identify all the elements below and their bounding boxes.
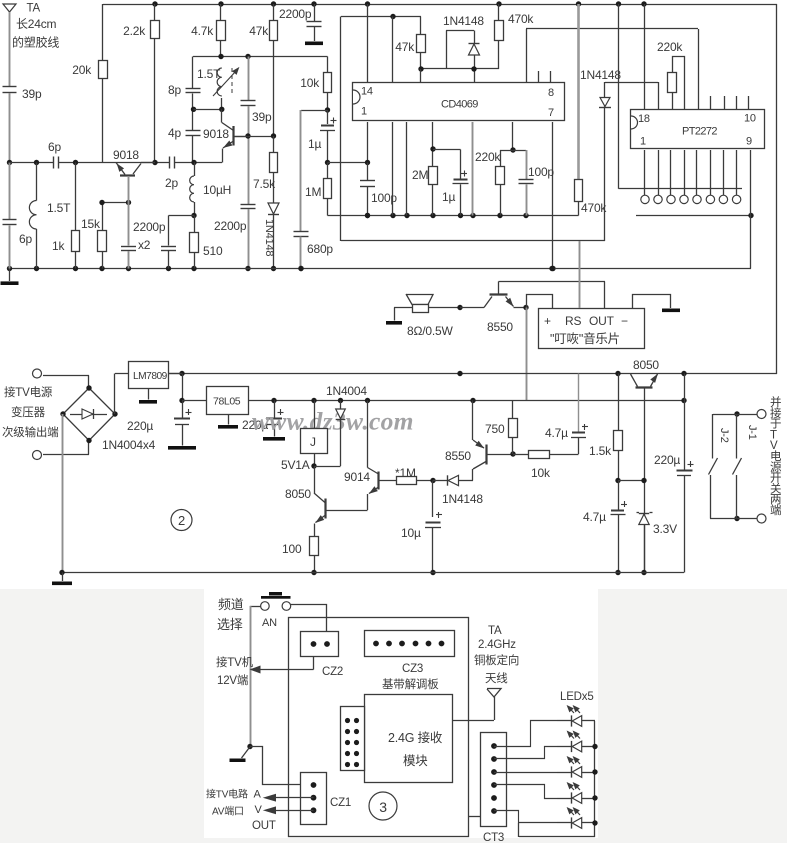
svg-text:接TV电路: 接TV电路 xyxy=(206,788,248,801)
svg-text:天线: 天线 xyxy=(485,671,508,685)
svg-text:9014: 9014 xyxy=(344,470,370,484)
svg-text:680p: 680p xyxy=(307,242,333,256)
svg-text:端: 端 xyxy=(770,504,781,517)
svg-text:1N4004x4: 1N4004x4 xyxy=(102,438,156,452)
svg-text:78L05: 78L05 xyxy=(213,396,241,408)
svg-text:1.5k: 1.5k xyxy=(589,444,612,458)
svg-text:10µ: 10µ xyxy=(401,526,421,540)
svg-text:10k: 10k xyxy=(300,76,320,90)
svg-text:6p: 6p xyxy=(48,140,61,154)
svg-text:220k: 220k xyxy=(475,150,501,164)
svg-text:12V端: 12V端 xyxy=(217,674,248,687)
svg-text:2p: 2p xyxy=(165,176,178,190)
svg-text:1µ: 1µ xyxy=(442,190,455,204)
svg-text:7.5k: 7.5k xyxy=(253,177,276,191)
svg-text:选择: 选择 xyxy=(217,617,243,632)
svg-text:100p: 100p xyxy=(528,165,554,179)
svg-text:2200p: 2200p xyxy=(133,220,166,234)
svg-text:的塑胶线: 的塑胶线 xyxy=(12,35,59,50)
svg-text:100: 100 xyxy=(282,542,302,556)
svg-text:1N4148: 1N4148 xyxy=(442,492,483,506)
svg-text:9018: 9018 xyxy=(203,127,229,141)
svg-text:47k: 47k xyxy=(395,40,415,54)
svg-text:5V1A: 5V1A xyxy=(281,458,310,472)
svg-text:1N4148: 1N4148 xyxy=(443,14,484,28)
svg-text:www.dz3w.com: www.dz3w.com xyxy=(252,407,414,436)
svg-text:A: A xyxy=(254,789,262,801)
svg-text:9018: 9018 xyxy=(113,148,139,162)
svg-text:TA: TA xyxy=(488,625,502,637)
svg-text:6p: 6p xyxy=(19,232,32,246)
svg-text:AV端口: AV端口 xyxy=(212,805,244,818)
svg-text:1N4148: 1N4148 xyxy=(580,68,621,82)
svg-text:2.4GHz: 2.4GHz xyxy=(478,639,516,651)
svg-text:4.7µ: 4.7µ xyxy=(545,426,568,440)
svg-text:220µ: 220µ xyxy=(654,453,680,467)
svg-text:OUT: OUT xyxy=(252,820,276,832)
svg-text:基带解调板: 基带解调板 xyxy=(382,677,439,691)
svg-text:47k: 47k xyxy=(249,24,269,38)
svg-text:8p: 8p xyxy=(168,83,181,97)
svg-text:CZ3: CZ3 xyxy=(402,663,423,675)
svg-text:PT2272: PT2272 xyxy=(682,126,717,138)
svg-text:2.4G 接收: 2.4G 接收 xyxy=(388,730,443,745)
svg-text:220k: 220k xyxy=(657,40,683,54)
svg-text:8550: 8550 xyxy=(445,449,471,463)
svg-text:2.2k: 2.2k xyxy=(123,24,146,38)
svg-text:2200p: 2200p xyxy=(214,219,247,233)
svg-text:+: + xyxy=(544,314,551,328)
svg-text:14: 14 xyxy=(361,86,373,98)
svg-text:3: 3 xyxy=(379,799,387,815)
svg-text:OUT: OUT xyxy=(589,314,615,328)
svg-text:CZ1: CZ1 xyxy=(330,797,351,809)
svg-text:接TV电源: 接TV电源 xyxy=(4,385,53,399)
svg-text:4.7k: 4.7k xyxy=(191,24,214,38)
svg-text:变压器: 变压器 xyxy=(11,405,46,419)
svg-text:2200p: 2200p xyxy=(279,7,312,21)
svg-text:8Ω/0.5W: 8Ω/0.5W xyxy=(407,324,453,338)
svg-text:20k: 20k xyxy=(72,63,92,77)
svg-text:1.5T: 1.5T xyxy=(197,67,221,81)
svg-text:1M: 1M xyxy=(305,185,321,199)
svg-text:10µH: 10µH xyxy=(203,183,231,197)
svg-text:−: − xyxy=(621,314,628,328)
svg-text:"叮咴"音乐片: "叮咴"音乐片 xyxy=(550,331,620,346)
svg-text:CD4069: CD4069 xyxy=(441,99,478,111)
svg-text:750: 750 xyxy=(485,422,505,436)
svg-text:1µ: 1µ xyxy=(308,137,321,151)
svg-text:7: 7 xyxy=(548,107,554,119)
svg-text:470k: 470k xyxy=(508,12,534,26)
svg-text:1: 1 xyxy=(640,136,646,148)
svg-text:4p: 4p xyxy=(168,126,181,140)
svg-text:8550: 8550 xyxy=(487,320,513,334)
svg-text:CZ2: CZ2 xyxy=(322,666,343,678)
svg-text:18: 18 xyxy=(638,113,650,125)
svg-text:TA: TA xyxy=(27,3,41,15)
svg-text:接TV机: 接TV机 xyxy=(216,655,254,669)
svg-text:8050: 8050 xyxy=(633,358,659,372)
svg-text:1N4148: 1N4148 xyxy=(263,219,275,256)
svg-text:铜板定向: 铜板定向 xyxy=(474,653,519,667)
svg-text:J-2: J-2 xyxy=(718,428,730,443)
svg-text:100p: 100p xyxy=(371,191,397,205)
svg-text:1: 1 xyxy=(361,106,367,118)
svg-text:1.5T: 1.5T xyxy=(47,201,71,215)
svg-text:*1M: *1M xyxy=(395,466,416,480)
svg-text:2M: 2M xyxy=(412,168,428,182)
svg-text:2: 2 xyxy=(178,513,185,528)
svg-text:J: J xyxy=(310,435,316,449)
svg-text:10k: 10k xyxy=(531,466,551,480)
svg-text:1k: 1k xyxy=(52,239,65,253)
svg-text:39p: 39p xyxy=(252,110,272,124)
svg-text:15k: 15k xyxy=(81,217,101,231)
svg-text:9: 9 xyxy=(746,136,752,148)
svg-text:V: V xyxy=(255,804,263,816)
svg-text:LEDx5: LEDx5 xyxy=(560,691,594,703)
svg-text:AN: AN xyxy=(262,617,277,629)
svg-text:4.7µ: 4.7µ xyxy=(583,510,606,524)
svg-text:频道: 频道 xyxy=(218,597,244,612)
svg-text:CT3: CT3 xyxy=(483,832,504,843)
svg-text:220µ: 220µ xyxy=(127,419,153,433)
svg-text:长24cm: 长24cm xyxy=(16,17,57,31)
svg-text:1N4004: 1N4004 xyxy=(326,384,367,398)
svg-text:470k: 470k xyxy=(581,201,607,215)
svg-text:次级输出端: 次级输出端 xyxy=(2,425,59,439)
svg-text:J-1: J-1 xyxy=(746,425,758,440)
svg-text:3.3V: 3.3V xyxy=(653,522,677,536)
svg-text:8: 8 xyxy=(548,87,554,99)
svg-text:10: 10 xyxy=(744,113,756,125)
svg-text:LM7809: LM7809 xyxy=(133,371,168,382)
svg-text:RS: RS xyxy=(565,314,581,328)
svg-text:8050: 8050 xyxy=(285,487,311,501)
svg-text:510: 510 xyxy=(203,244,223,258)
svg-text:模块: 模块 xyxy=(403,754,428,768)
svg-text:x2: x2 xyxy=(138,238,151,252)
svg-text:39p: 39p xyxy=(22,87,42,101)
